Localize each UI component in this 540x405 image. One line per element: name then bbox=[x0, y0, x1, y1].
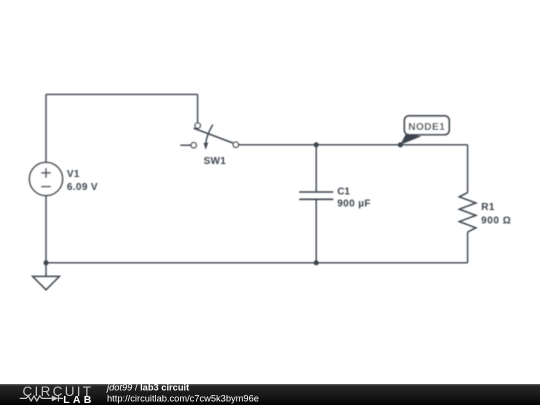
logo circuitlab bbox=[20, 384, 95, 405]
svg-text:900 µF: 900 µF bbox=[337, 199, 371, 210]
svg-text:C1: C1 bbox=[337, 187, 350, 198]
svg-text:R1: R1 bbox=[481, 202, 495, 213]
voltage source V1 bbox=[29, 162, 62, 195]
wire top-left rail bbox=[46, 94, 198, 162]
capacitor C1 bbox=[299, 192, 333, 199]
svg-text:V1: V1 bbox=[67, 169, 80, 180]
label V1 value bbox=[67, 169, 98, 193]
label R1 value bbox=[481, 202, 511, 226]
wire bottom rail bbox=[46, 262, 468, 264]
footer bar bbox=[0, 384, 540, 405]
svg-text:900 Ω: 900 Ω bbox=[481, 215, 511, 226]
wire switch drop bbox=[197, 94, 199, 123]
wire V1 bottom lead bbox=[45, 196, 47, 263]
junction dot ground bbox=[44, 260, 49, 265]
label C1 value bbox=[337, 187, 371, 210]
resistor R1 bbox=[459, 193, 476, 232]
svg-text:NODE1: NODE1 bbox=[408, 122, 445, 133]
svg-text:jdot99 / lab3 circuit: jdot99 / lab3 circuit bbox=[105, 382, 189, 392]
wire switch open stub bbox=[180, 144, 191, 146]
svg-text:http://circuitlab.com/c7cw5k3b: http://circuitlab.com/c7cw5k3bym96e bbox=[107, 393, 259, 403]
svg-text:SW1: SW1 bbox=[204, 156, 227, 167]
wire R1 top lead bbox=[467, 145, 469, 193]
junction dot cap top bbox=[314, 142, 319, 147]
wire capacitor bottom lead bbox=[315, 199, 317, 262]
label SW1 bbox=[204, 156, 227, 167]
svg-text:6.09 V: 6.09 V bbox=[67, 182, 98, 193]
wire R1 bottom lead bbox=[467, 232, 469, 263]
node NODE1 bbox=[398, 116, 449, 147]
wire top run switch to R1 corner bbox=[239, 144, 468, 146]
ground bbox=[33, 276, 60, 289]
junction dot cap bottom bbox=[314, 260, 319, 265]
wire ground stub bbox=[45, 263, 47, 277]
switch SW1 bbox=[191, 123, 239, 150]
wire capacitor top lead bbox=[315, 145, 317, 192]
svg-text:LAB: LAB bbox=[63, 394, 94, 405]
